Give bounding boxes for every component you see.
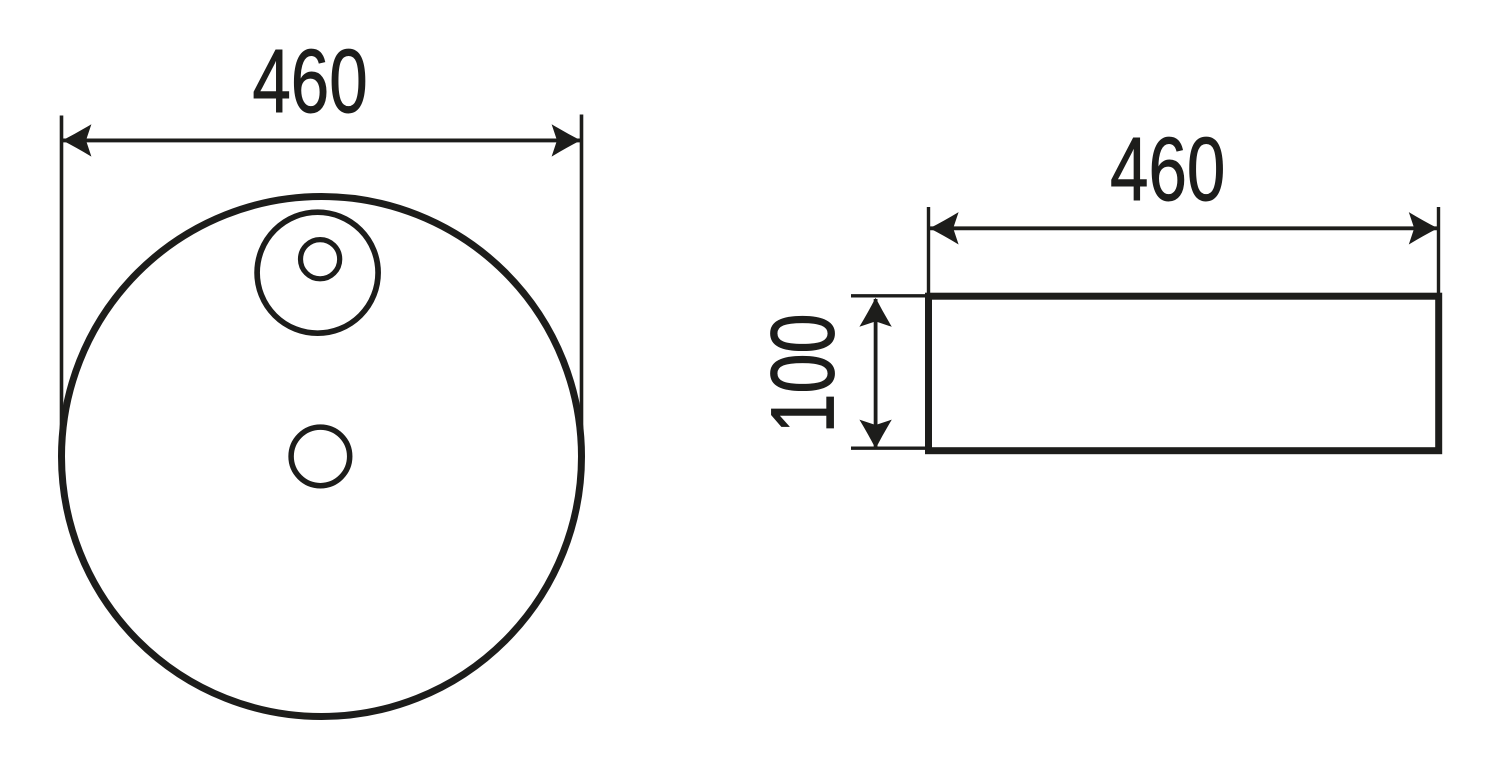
svg-text:460: 460 xyxy=(1110,119,1225,220)
svg-text:100: 100 xyxy=(753,313,853,433)
svg-text:460: 460 xyxy=(252,31,367,132)
